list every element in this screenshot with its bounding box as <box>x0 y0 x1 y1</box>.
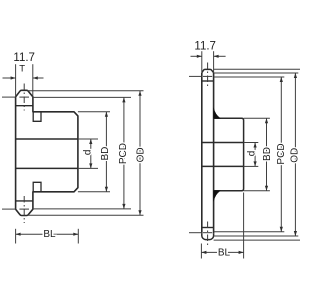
svg-text:PCD: PCD <box>276 143 287 164</box>
left OD extension bottom <box>28 214 144 216</box>
right d extension stubs <box>244 142 259 144</box>
svg-text:BL: BL <box>218 247 231 258</box>
left top relief notch <box>33 112 41 122</box>
right bottom tooth <box>202 234 214 240</box>
svg-text:OD: OD <box>289 148 300 163</box>
left sprocket body outline <box>16 90 78 215</box>
left dimension d <box>90 139 92 168</box>
left dimension BL <box>16 233 79 235</box>
svg-text:BD: BD <box>100 147 111 161</box>
right tip extension bottom <box>214 239 300 241</box>
right pitch line right top <box>214 76 285 78</box>
left d extension stubs <box>78 138 98 140</box>
svg-text:BL: BL <box>43 229 56 240</box>
right top tooth centerline <box>207 63 209 87</box>
svg-text:11.7: 11.7 <box>13 52 35 64</box>
right plate left face <box>201 73 203 234</box>
left bottom tooth centerline <box>23 196 25 223</box>
svg-text:d: d <box>246 151 257 157</box>
right bore line upper <box>202 142 244 144</box>
svg-text:OD: OD <box>136 147 147 162</box>
right hub outline <box>214 118 244 190</box>
right top tooth root line <box>202 80 214 82</box>
svg-text:d: d <box>83 150 94 156</box>
svg-text:BD: BD <box>262 147 273 161</box>
left top tooth root line <box>16 105 33 107</box>
left bottom relief notch <box>33 182 41 192</box>
right dimension BD <box>266 118 268 190</box>
right pitch line right bottom <box>214 231 285 233</box>
left BD extension bottom <box>78 191 110 193</box>
left bore line upper <box>16 138 78 140</box>
right dimension 11.7 arrow lines <box>191 55 202 57</box>
left dimension 11.7 arrow lines <box>3 77 16 79</box>
left dimension BD <box>105 112 107 192</box>
right pitch line stub top <box>189 75 202 77</box>
right dimension 11.7 extension lines <box>201 51 203 72</box>
right bottom weld fillet <box>214 191 221 202</box>
left bore line lower <box>16 167 78 169</box>
left dimension 11.7 extension lines <box>15 64 17 97</box>
left OD extension top <box>28 90 144 92</box>
left pitch line stub top <box>2 96 16 98</box>
left bottom tooth root line <box>16 200 33 202</box>
svg-text:PCD: PCD <box>118 143 129 164</box>
right bottom tooth centerline <box>207 222 209 247</box>
svg-text:T: T <box>19 63 25 74</box>
right tip extension top <box>214 68 300 70</box>
right bottom tooth root line <box>202 227 214 229</box>
right BD extension top <box>244 117 270 119</box>
right top weld fillet <box>214 108 221 119</box>
right dimension OD <box>294 73 296 236</box>
left pitch line stub bottom <box>2 208 16 210</box>
right dimension PCD <box>280 77 282 232</box>
right dimension BL extension lines <box>200 244 202 259</box>
left pitch line right bottom <box>33 208 131 210</box>
left dimension OD <box>139 91 141 216</box>
svg-text:11.7: 11.7 <box>194 40 216 52</box>
right top tooth <box>202 69 214 72</box>
right plate right face <box>213 73 215 234</box>
right BD extension bottom <box>244 190 270 192</box>
left pitch line right top <box>33 96 131 98</box>
left top tooth centerline <box>23 84 25 111</box>
right dimension d <box>254 143 256 167</box>
left dimension BL extension lines <box>15 229 17 244</box>
right dimension BL <box>201 251 243 253</box>
right pitch line stub bottom <box>189 232 202 234</box>
right OD extension top <box>214 72 299 74</box>
right bore line lower <box>202 165 244 167</box>
left dimension PCD <box>123 97 125 208</box>
left BD extension top <box>78 111 110 113</box>
right OD extension bottom <box>214 235 299 237</box>
